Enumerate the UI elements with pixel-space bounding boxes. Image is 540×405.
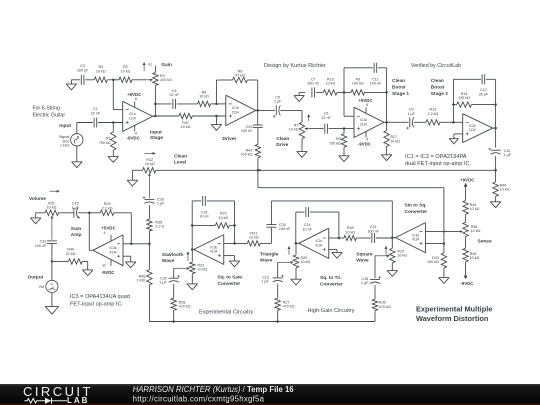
wire [148, 285, 150, 322]
resistor R35 [147, 219, 152, 231]
potentiometer R20 (triangle level) [295, 243, 297, 255]
crossing arrowhead [444, 230, 447, 233]
wire (feedback riser left) [452, 79, 454, 122]
svg-text:130 kΩ: 130 kΩ [458, 96, 470, 100]
svg-text:Wave: Wave [162, 258, 175, 264]
op-amp IC3c [299, 228, 329, 258]
resistor R8 [233, 77, 248, 82]
ground (R32 left) [132, 169, 142, 171]
wire [440, 121, 463, 123]
wire (riser to output) [495, 79, 497, 128]
svg-text:4134: 4134 [109, 250, 116, 254]
op-amp IC1b [226, 95, 256, 125]
svg-text:100 nF: 100 nF [370, 82, 382, 86]
pot wiper R19 [375, 255, 390, 257]
wire [173, 268, 175, 278]
svg-text:470 kΩ: 470 kΩ [379, 305, 391, 309]
svg-text:Driver: Driver [223, 136, 237, 142]
wire [112, 80, 114, 110]
ground (source) [76, 145, 78, 161]
ground (R19) [391, 263, 393, 271]
svg-text:100 nF: 100 nF [279, 227, 291, 231]
wire [329, 237, 344, 239]
bus arrowhead [259, 169, 262, 172]
ground (IC3a + input) [123, 255, 131, 257]
resistor R48 [147, 270, 152, 285]
capacitor C9 (polarized) [409, 117, 411, 127]
potentiometer R46 (Sense) [463, 222, 468, 236]
node (IC1b output) [256, 109, 259, 112]
svg-text:100 kΩ: 100 kΩ [352, 82, 364, 86]
svg-text:100 nF: 100 nF [367, 229, 379, 233]
svg-text:8: 8 [366, 103, 368, 107]
wire [173, 284, 175, 298]
node [443, 242, 446, 245]
svg-text:V: V [51, 282, 54, 287]
node (R4 bottom / C4) [154, 103, 157, 106]
ground (R5) [343, 147, 345, 156]
potentiometer R31 (Volume) [45, 210, 59, 215]
wire (R7 wiper to C6) [310, 128, 324, 130]
wire [82, 260, 87, 262]
capacitor C16 [202, 196, 204, 206]
op-amp IC1a [123, 101, 153, 131]
node [233, 224, 236, 227]
resistor R27 [275, 298, 280, 310]
capacitor C7 [311, 87, 313, 97]
node (sawtooth node) [191, 248, 194, 251]
wire [316, 91, 324, 93]
svg-text:2134: 2134 [469, 128, 476, 132]
wire [51, 293, 53, 307]
wire [365, 91, 387, 93]
wire [113, 109, 122, 111]
wire (feedback riser right) [234, 201, 236, 244]
resistor R9 [351, 90, 365, 95]
wire [301, 110, 303, 122]
wire [59, 212, 74, 214]
node (mix bus / C10) [494, 169, 497, 172]
resistor R18 [344, 235, 357, 240]
wire (feedback riser left) [191, 201, 193, 250]
resistor R49 [68, 259, 82, 264]
annotation arrow Volume [50, 190, 60, 192]
resistor R29 [100, 210, 114, 215]
resistor R6 [198, 101, 211, 106]
svg-text:10 kΩ: 10 kΩ [145, 162, 155, 166]
svg-text:Volume: Volume [29, 196, 46, 202]
wire [77, 122, 93, 124]
svg-text:470 kΩ: 470 kΩ [283, 305, 295, 309]
svg-text:100 nF: 100 nF [35, 244, 47, 248]
wire [154, 86, 156, 117]
svg-text:Stage 1: Stage 1 [392, 91, 409, 97]
svg-text:FET-input op-amp IC.: FET-input op-amp IC. [70, 302, 123, 308]
svg-text:22 nF: 22 nF [91, 111, 101, 115]
svg-text:2134: 2134 [360, 122, 367, 126]
wire [374, 285, 376, 299]
pot wiper R32 [148, 173, 151, 176]
wire [148, 231, 150, 270]
wire (IC3a - input) [123, 243, 149, 245]
svg-text:Converter: Converter [218, 281, 241, 287]
node (IC3c - input) [338, 237, 341, 240]
wire [280, 109, 302, 111]
wire (feedback riser left) [295, 212, 297, 243]
svg-text:Boost: Boost [431, 85, 445, 91]
svg-text:Converter: Converter [405, 209, 428, 215]
capacitor C14 [305, 207, 307, 217]
node [452, 103, 455, 106]
wire [465, 237, 467, 249]
wire [114, 212, 131, 214]
wire (IC2a output) [384, 121, 409, 123]
svg-text:Wave: Wave [356, 258, 369, 264]
svg-text:10 kΩ: 10 kΩ [96, 69, 106, 73]
wire (IC2b output) [493, 127, 496, 129]
svg-text:-5VDC: -5VDC [101, 270, 115, 275]
ground (C2 high-pass) [70, 80, 72, 84]
capacitor C31 [47, 240, 57, 242]
wire [374, 311, 376, 322]
svg-text:10 kΩ: 10 kΩ [470, 207, 480, 211]
node (IC1b inverting input) [215, 103, 218, 106]
capacitor C11 [373, 63, 375, 73]
capacitor C19 (polarized) [273, 277, 283, 279]
wire [296, 211, 305, 213]
node (IC1a output) [154, 115, 157, 118]
wire (feedback riser) [216, 80, 218, 104]
ground (R17) [386, 147, 388, 155]
svg-text:10 kΩ: 10 kΩ [345, 230, 355, 234]
svg-text:10 kΩ: 10 kΩ [390, 139, 400, 143]
svg-text:Experimental Circuitry: Experimental Circuitry [199, 310, 253, 316]
wire (IC1a output) [153, 115, 179, 117]
potentiometer R19 (square level) [391, 238, 393, 249]
pot wiper R46 [460, 230, 463, 233]
wire (tee down) [257, 170, 259, 187]
wire [486, 78, 496, 80]
svg-text:High-Gain Circuitry: High-Gain Circuitry [308, 308, 355, 314]
svg-text:-9VDC: -9VDC [460, 281, 474, 286]
svg-text:+5VDC: +5VDC [101, 226, 116, 231]
svg-text:2134: 2134 [129, 116, 136, 120]
wire [173, 310, 175, 321]
svg-text:750 kΩ: 750 kΩ [99, 141, 111, 145]
wire (apex) [296, 242, 300, 244]
svg-text:Gain: Gain [161, 62, 172, 68]
svg-text:160 pF: 160 pF [77, 69, 89, 73]
resistor R17 [386, 122, 388, 130]
ground (R40) [495, 196, 497, 202]
node A (R3/R2 junction) [112, 79, 115, 82]
capacitor C10 (polarized) [491, 149, 501, 151]
svg-text:10 nF: 10 nF [199, 215, 209, 219]
svg-text:Waveform Distortion: Waveform Distortion [416, 314, 489, 323]
wire (bus B to comparator) [258, 187, 444, 189]
ground (IC3c + input) [329, 248, 337, 250]
node (square node) [391, 237, 394, 240]
wire [374, 256, 376, 278]
annotation arrow (clean drive) [308, 114, 310, 121]
voltmeter VM [46, 280, 58, 292]
wire [224, 242, 248, 244]
wire [229, 224, 234, 226]
wire [260, 242, 271, 244]
svg-text:1 µF: 1 µF [504, 153, 512, 157]
svg-text:470 kΩ: 470 kΩ [179, 305, 191, 309]
svg-text:LAB: LAB [67, 396, 89, 405]
svg-text:IC1 = IC2 = OPA2134PA: IC1 = IC2 = OPA2134PA [405, 154, 467, 160]
svg-text:Input: Input [59, 123, 71, 129]
svg-text:Sq. to Saw.: Sq. to Saw. [218, 275, 243, 281]
potentiometer R32 (Clean Level) [143, 168, 156, 173]
svg-text:1 MΩ: 1 MΩ [136, 279, 145, 283]
signal source V1 (sine 1 kHz) [71, 134, 83, 146]
resistor R45 [463, 248, 468, 262]
wire (riser to output) [386, 68, 388, 123]
resistor R2 [119, 77, 132, 82]
wire [277, 262, 279, 277]
ground (R7) [301, 139, 303, 152]
wire [277, 284, 279, 298]
svg-text:36 pF: 36 pF [479, 93, 489, 97]
node (input node) [112, 121, 115, 124]
wire (mix bus D) [149, 321, 374, 323]
svg-text:Input: Input [150, 129, 162, 135]
svg-text:Amp: Amp [71, 232, 82, 238]
svg-text:-9VDC: -9VDC [358, 142, 372, 147]
wire (mix bus A) [156, 169, 496, 171]
svg-text:Drive: Drive [276, 142, 288, 148]
wire [495, 128, 497, 147]
svg-text:nc: nc [148, 63, 152, 67]
capacitor C20 (polarized) [169, 277, 179, 279]
svg-text:Electric Guitar: Electric Guitar [33, 113, 66, 119]
wire [329, 128, 354, 130]
capacitor C5 (polarized) [275, 105, 277, 115]
svg-text:4134: 4134 [315, 243, 322, 247]
wire [51, 261, 53, 280]
wire [472, 104, 496, 106]
wire [51, 244, 53, 262]
node (sum node) [148, 243, 151, 246]
svg-text:10 kΩ: 10 kΩ [249, 236, 259, 240]
wire [85, 79, 94, 81]
wire [337, 91, 351, 93]
wire (feedback riser right) [257, 80, 259, 110]
wire [107, 79, 119, 81]
node [385, 91, 388, 94]
resistor R42 [257, 128, 259, 145]
svg-text:+9VDC: +9VDC [358, 98, 373, 103]
ground (R49) [87, 261, 89, 270]
op-amp IC2a [354, 107, 384, 137]
potentiometer R4 [153, 73, 158, 86]
svg-text:Sum: Sum [71, 226, 81, 232]
svg-text:10 kΩ: 10 kΩ [470, 256, 480, 260]
ground (VM) [45, 306, 59, 308]
svg-text:VM: VM [39, 285, 45, 289]
annotation arrow Gain [143, 62, 145, 71]
wire [465, 214, 467, 222]
svg-text:2.2 kΩ: 2.2 kΩ [428, 112, 439, 116]
svg-text:1 µF: 1 µF [159, 281, 167, 285]
wire [453, 104, 456, 106]
annotation arrow Clean Level [144, 152, 155, 154]
wire (riser to C25) [270, 228, 272, 244]
op-amp IC2b [463, 114, 493, 143]
wire [52, 260, 68, 262]
wire [356, 237, 370, 239]
svg-text:Clean: Clean [392, 78, 405, 84]
node (IC2a output) [385, 121, 388, 124]
ground (R31 left) [36, 212, 45, 214]
pot wiper R31 [50, 216, 53, 219]
wire (IC3d + input) [426, 243, 444, 245]
wire (riser to - input) [343, 68, 345, 116]
svg-text:Clean: Clean [174, 153, 187, 159]
resistor R44 [463, 201, 468, 215]
svg-text:Square: Square [356, 252, 373, 258]
wire [310, 211, 339, 213]
node (bus D) [172, 320, 175, 323]
wire [71, 79, 80, 81]
wire [76, 123, 78, 135]
wire (square feed) [271, 200, 392, 202]
svg-text:10 kΩ: 10 kΩ [181, 125, 191, 129]
wire [78, 212, 100, 214]
svg-text:10 kΩ: 10 kΩ [289, 128, 299, 132]
node (bus D) [276, 320, 279, 323]
wire (C16 top left) [192, 200, 201, 202]
resistor R21 [247, 241, 260, 246]
wire [192, 115, 226, 117]
wire [376, 237, 393, 239]
svg-text:1 kHz: 1 kHz [60, 144, 70, 148]
svg-text:47 kΩ: 47 kΩ [235, 74, 245, 78]
annotation arrow Sawtooth [187, 252, 189, 261]
resistor R43 [443, 244, 445, 253]
svg-text:10 kΩ: 10 kΩ [500, 188, 510, 192]
wire [495, 156, 497, 170]
svg-text:750 kΩ: 750 kΩ [329, 142, 341, 146]
svg-text:22 kΩ: 22 kΩ [66, 252, 76, 256]
capacitor C29 [257, 110, 259, 125]
svg-text:1 µF: 1 µF [274, 100, 282, 104]
op-amp IC3a (sum amp) [93, 235, 123, 266]
svg-text:2.2 kΩ: 2.2 kΩ [102, 207, 113, 211]
wire [217, 79, 233, 81]
svg-text:http://circuitlab.com/cxmtg95h: http://circuitlab.com/cxmtg95hxgf5a [133, 394, 265, 403]
node (IC3b - input) [233, 242, 236, 245]
svg-text:Sq. to Tri.: Sq. to Tri. [320, 275, 342, 281]
ground (R43) [443, 268, 445, 277]
svg-text:1 µF: 1 µF [407, 112, 415, 116]
svg-text:10 kΩ: 10 kΩ [397, 254, 407, 258]
resistor R28 [171, 298, 176, 310]
svg-text:10 kΩ: 10 kΩ [199, 95, 209, 99]
wire (IC3d - input to sense) [426, 231, 462, 233]
ground (IC1b + input) [216, 116, 218, 125]
svg-text:Clean: Clean [431, 78, 444, 84]
node (output node) [51, 260, 54, 263]
svg-text:Sin to Sq.: Sin to Sq. [405, 202, 427, 208]
svg-text:1 µF: 1 µF [361, 281, 369, 285]
svg-text:Experimental Multiple: Experimental Multiple [416, 305, 492, 314]
wire (apex) [192, 249, 195, 251]
svg-text:10 nF: 10 nF [302, 227, 312, 231]
svg-text:1 µF: 1 µF [157, 202, 165, 206]
ground (R20) [295, 268, 297, 279]
svg-text:4134: 4134 [210, 250, 217, 254]
capacitor C4 [172, 99, 174, 109]
wire [132, 79, 146, 81]
potentiometer R7 (Clean Drive) [299, 122, 304, 138]
capacitor C12 [481, 74, 483, 84]
svg-text:Sawtooth: Sawtooth [162, 252, 184, 258]
svg-text:10 kΩ: 10 kΩ [197, 268, 207, 272]
svg-text:For 6-String: For 6-String [33, 106, 61, 112]
wire [148, 205, 150, 219]
capacitor C15 (polarized) [73, 208, 75, 218]
node [191, 224, 194, 227]
svg-text:8: 8 [135, 97, 137, 101]
svg-text:11: 11 [102, 264, 106, 268]
node [494, 103, 497, 106]
svg-text:10 kΩ: 10 kΩ [301, 260, 311, 264]
annotation arrow Triangle [288, 246, 290, 255]
wire (IC1b output) [256, 109, 275, 111]
ground (IC2b + input) [454, 133, 463, 135]
wire [211, 103, 226, 105]
node (triangle node) [295, 242, 298, 245]
svg-text:10 kΩ: 10 kΩ [121, 69, 131, 73]
svg-text:100 kΩ: 100 kΩ [241, 153, 253, 157]
wire [248, 79, 258, 81]
svg-text:Stage 2: Stage 2 [431, 91, 448, 97]
resistor R5 [341, 134, 346, 148]
wire [98, 122, 123, 124]
resistor R22 [215, 223, 229, 228]
wire [344, 115, 354, 117]
svg-text:-9VDC: -9VDC [127, 136, 141, 141]
node (IC2a feedback) [343, 91, 346, 94]
pot wiper R23 [174, 267, 190, 269]
node (IC2b - input) [452, 121, 455, 124]
svg-text:820 nF: 820 nF [307, 82, 319, 86]
svg-text:Converter: Converter [320, 281, 343, 287]
capacitor C25 [266, 224, 276, 226]
wire [391, 201, 393, 238]
resistor R13 [426, 120, 440, 125]
wire (output riser) [88, 213, 90, 251]
svg-text:+9VDC: +9VDC [127, 92, 142, 97]
wire [177, 103, 198, 105]
wire [378, 67, 387, 69]
wire (feedback riser right) [338, 212, 340, 238]
svg-text:100 nF: 100 nF [241, 129, 253, 133]
svg-text:+9VDC: +9VDC [460, 177, 475, 182]
svg-text:Triangle: Triangle [260, 251, 279, 257]
svg-text:100 kΩ: 100 kΩ [427, 260, 439, 264]
svg-text:Level: Level [174, 159, 186, 165]
svg-text:10 kΩ: 10 kΩ [471, 229, 481, 233]
resistor R10 [323, 90, 337, 95]
wire [207, 200, 235, 202]
capacitor C21 [371, 233, 373, 243]
svg-text:HARRISON RICHTER (Kurtus) / Te: HARRISON RICHTER (Kurtus) / Temp File 16 [133, 385, 295, 394]
